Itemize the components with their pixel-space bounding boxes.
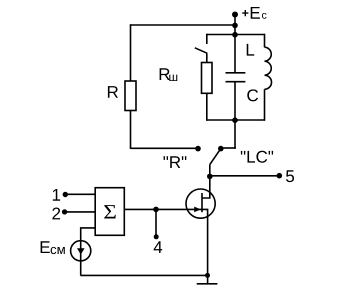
label R — [108, 86, 118, 98]
node 5 — [277, 173, 283, 179]
transistor Q1 gate arrow — [194, 207, 201, 213]
label L — [247, 44, 254, 56]
wire input 1 — [65, 193, 95, 195]
label "R" — [164, 156, 187, 168]
resistor Rsh — [202, 63, 213, 94]
wire drain lead — [202, 176, 210, 198]
wire — [234, 15, 236, 35]
node 4 terminal — [154, 234, 159, 239]
label 4 — [154, 241, 163, 253]
wire — [206, 34, 208, 44]
transistor Q1 channel bar — [201, 193, 203, 212]
source Ecm circle — [71, 241, 91, 261]
node 2 — [62, 209, 67, 214]
transistor Q1 body — [186, 189, 215, 218]
node +Ec terminal — [232, 12, 238, 18]
label Rsh — [160, 68, 178, 81]
wire input 2 — [65, 211, 96, 213]
label Ecm — [41, 241, 65, 254]
wire — [234, 82, 236, 120]
wire — [206, 93, 208, 121]
wire bottom return — [80, 274, 207, 276]
node junction source to return — [205, 273, 210, 278]
source Ecm arrow — [77, 248, 85, 254]
node switch pole — [207, 174, 213, 180]
wire — [131, 147, 199, 149]
wire — [264, 34, 266, 48]
ground — [197, 283, 218, 285]
summer U1 sigma symbol — [104, 205, 116, 218]
wire top rail — [207, 34, 265, 36]
wire — [206, 53, 208, 62]
label +Ec — [242, 7, 266, 19]
wire source lead — [202, 209, 208, 283]
node switch contact "R" — [195, 146, 201, 152]
node summer output junction — [153, 207, 159, 213]
inductor L — [265, 47, 272, 89]
summer U1 box — [95, 188, 124, 236]
label C — [247, 89, 258, 101]
label 1 — [53, 189, 60, 201]
wire to node 4 — [155, 209, 157, 236]
wire — [131, 24, 236, 26]
wire — [234, 35, 236, 73]
label 5 — [286, 170, 294, 182]
node junction tank top — [232, 32, 238, 38]
wire — [264, 89, 266, 121]
wire input 3 from Ecm — [81, 228, 96, 276]
wire bottom rail — [207, 119, 265, 121]
wire — [130, 24, 132, 81]
wire to node 5 — [210, 175, 279, 177]
wire — [130, 111, 132, 149]
wire — [209, 165, 211, 177]
label 2 — [52, 208, 60, 220]
node switch contact "LC" — [218, 146, 224, 152]
node junction tank bottom — [232, 117, 238, 123]
switch blade selecting LC — [210, 149, 221, 165]
label "LC" — [241, 151, 273, 163]
wire — [234, 120, 236, 149]
node 1 — [63, 192, 68, 197]
capacitor C — [226, 73, 246, 82]
wire — [221, 147, 236, 149]
node junction to R branch — [232, 23, 238, 29]
resistor R — [125, 81, 136, 111]
switch blade upper (open) — [195, 48, 208, 54]
wire gate from summer output — [124, 208, 202, 210]
